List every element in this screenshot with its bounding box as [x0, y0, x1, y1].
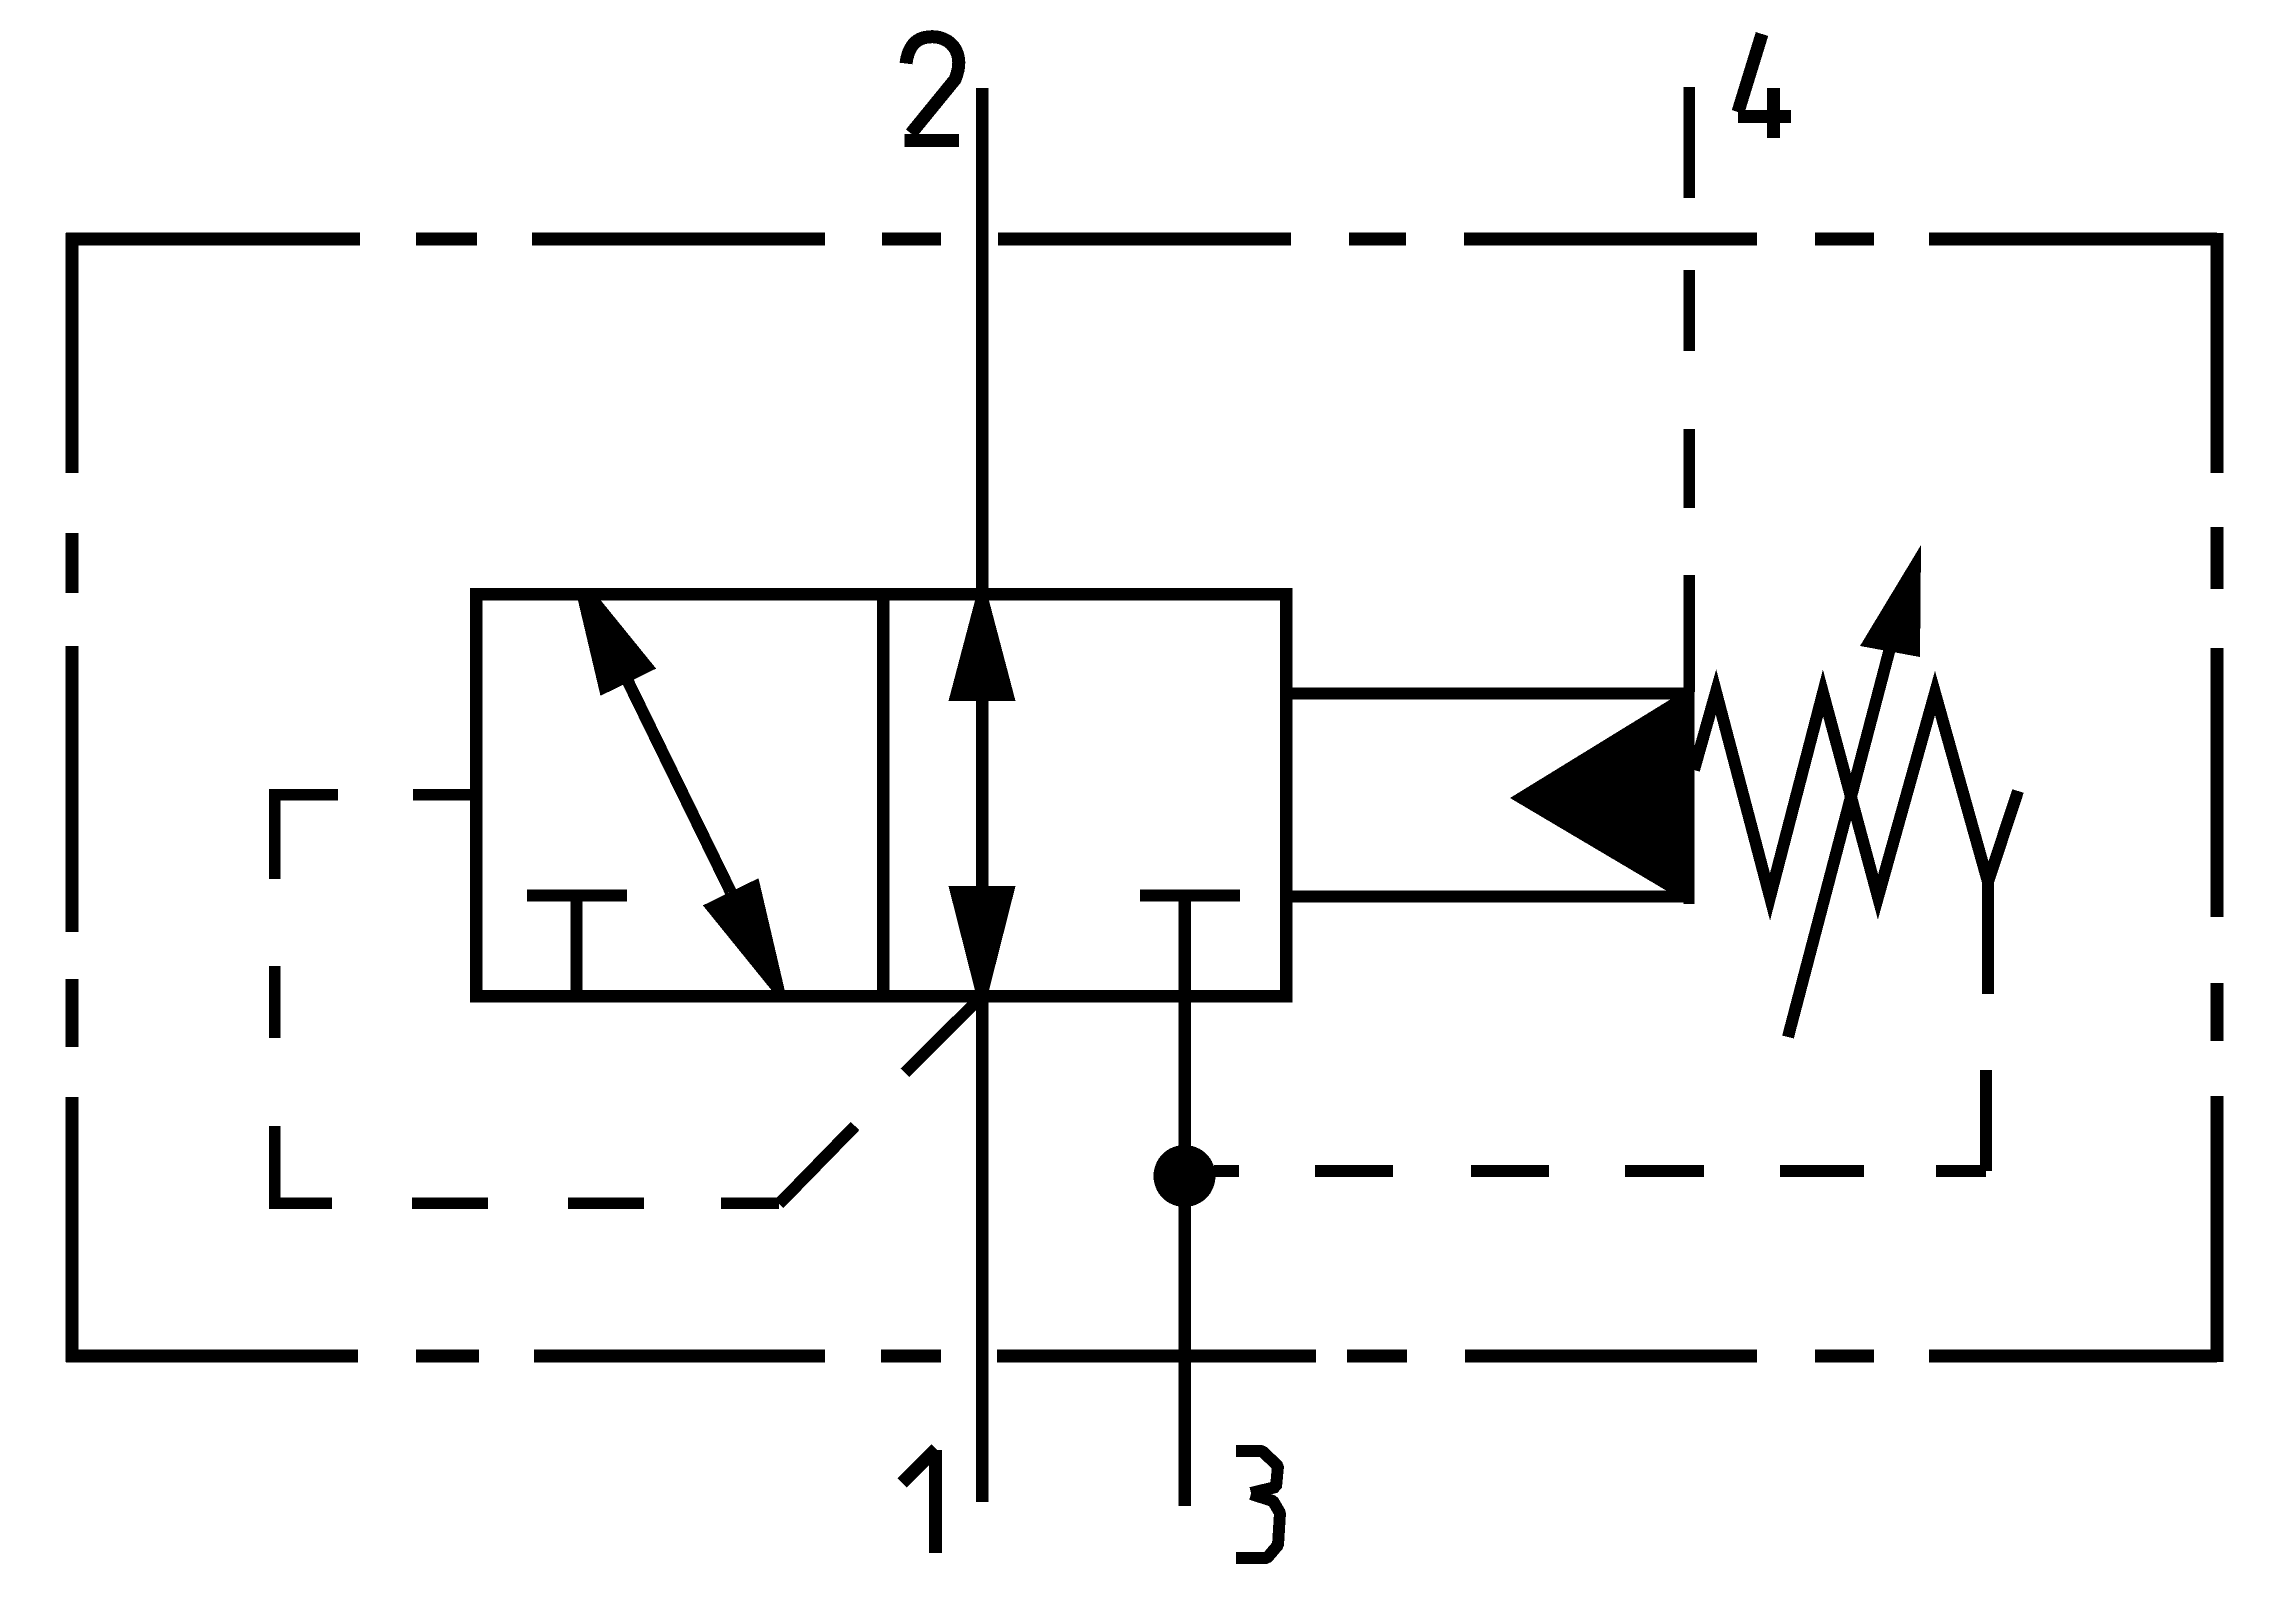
left box double-ended arrow: [576, 592, 787, 1000]
left box blocked port T: [527, 896, 627, 997]
enclosure dash-dot border left: [66, 233, 72, 1362]
pilot dashed box left edge: [269, 789, 281, 1203]
port 4 dashed pilot line: [1683, 87, 1695, 692]
connector line valve to pilot actuator top: [1286, 688, 1690, 700]
pilot pressure triangle: [1510, 688, 1689, 904]
pilot dashed box top edge: [273, 789, 476, 801]
port 2 line: [976, 88, 989, 1502]
label port 2: [905, 37, 960, 141]
pilot dashed box bottom edge: [269, 1197, 779, 1209]
right box blocked port T bar: [1140, 890, 1240, 902]
adjustable spring: [1694, 692, 2018, 994]
enclosure dash-dot border top: [66, 233, 2217, 246]
valve body two-position boxes: [476, 594, 1286, 996]
connector line valve to pilot actuator bottom: [1286, 891, 1690, 903]
junction dot on port 3 line: [1154, 1145, 1216, 1207]
label port 1: [902, 1449, 936, 1553]
enclosure dash-dot border right: [2211, 233, 2224, 1362]
pilot drain dashed line vertical: [1986, 882, 1988, 1171]
label port 3: [1236, 1451, 1280, 1558]
label port 4: [1738, 34, 1791, 138]
right box flow path down arrowhead: [949, 886, 1016, 1018]
enclosure dash-dot border bottom: [66, 1350, 2217, 1363]
pilot dashed diagonal to valve: [779, 996, 982, 1204]
pilot drain dashed line horizontal: [1214, 1165, 1986, 1177]
port 3 line: [1178, 896, 1191, 1506]
spring adjustment arrow: [1788, 545, 1921, 1037]
right box flow path up arrowhead: [949, 574, 1016, 701]
